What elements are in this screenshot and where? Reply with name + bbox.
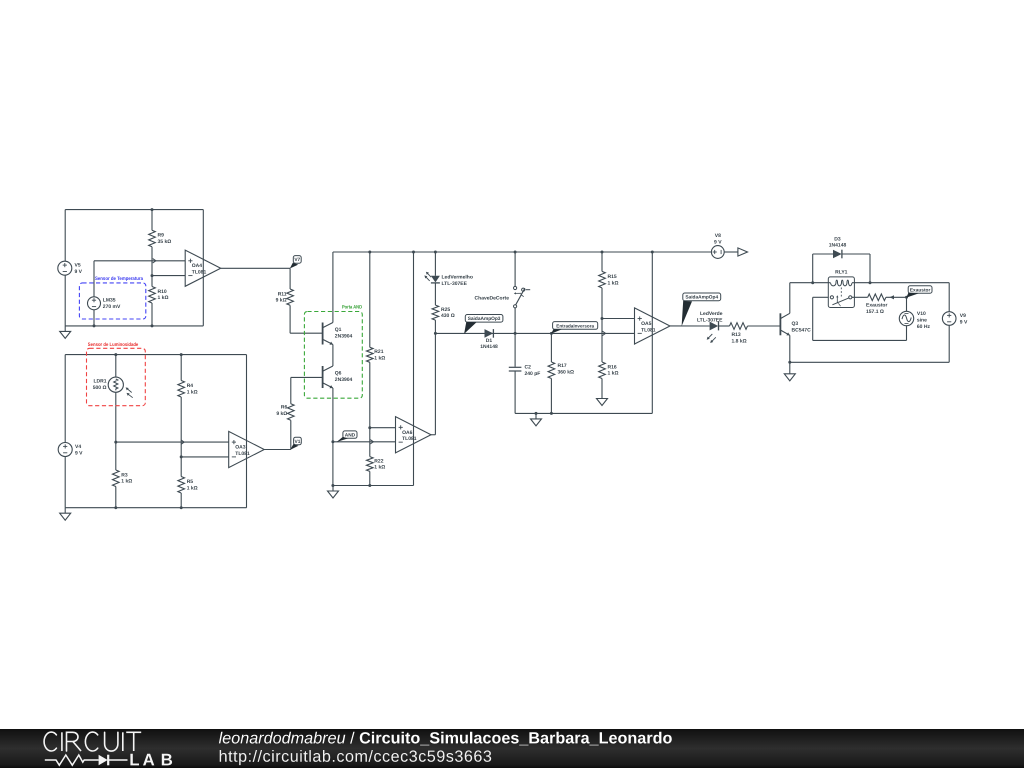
svg-text:Sensor de Luminosidade: Sensor de Luminosidade bbox=[88, 342, 139, 348]
svg-text:SaidaAmpOp4: SaidaAmpOp4 bbox=[685, 295, 718, 301]
svg-text:V8: V8 bbox=[715, 233, 721, 239]
svg-text:R5: R5 bbox=[187, 479, 194, 485]
svg-text:OA6: OA6 bbox=[402, 430, 413, 436]
svg-text:1 kΩ: 1 kΩ bbox=[374, 465, 385, 471]
svg-text:V4: V4 bbox=[75, 444, 81, 450]
svg-text:9 kΩ: 9 kΩ bbox=[276, 411, 287, 417]
svg-text:LTL-307EE: LTL-307EE bbox=[442, 281, 468, 287]
svg-text:TL081: TL081 bbox=[402, 436, 417, 442]
svg-text:LDR1: LDR1 bbox=[93, 379, 106, 385]
svg-text:35 kΩ: 35 kΩ bbox=[158, 239, 172, 245]
svg-text:OA5: OA5 bbox=[641, 321, 652, 327]
svg-text:TL081: TL081 bbox=[235, 451, 250, 457]
svg-text:2N3904: 2N3904 bbox=[335, 333, 353, 339]
svg-text:Exaustor: Exaustor bbox=[910, 287, 931, 293]
svg-text:ChaveDeCorte: ChaveDeCorte bbox=[475, 296, 510, 302]
svg-text:R17: R17 bbox=[558, 363, 567, 369]
svg-text:R10: R10 bbox=[158, 289, 167, 295]
svg-text:1N4148: 1N4148 bbox=[829, 243, 847, 249]
svg-text:270 mV: 270 mV bbox=[103, 304, 121, 310]
svg-text:Q1: Q1 bbox=[335, 327, 342, 333]
svg-text:1 kΩ: 1 kΩ bbox=[608, 371, 619, 377]
svg-text:LedVermelho: LedVermelho bbox=[442, 275, 473, 281]
svg-text:9 V: 9 V bbox=[75, 269, 83, 275]
svg-text:2N3904: 2N3904 bbox=[335, 377, 353, 383]
svg-text:Q3: Q3 bbox=[792, 321, 799, 327]
svg-text:R22: R22 bbox=[374, 458, 383, 464]
svg-text:Porta AND: Porta AND bbox=[342, 305, 362, 311]
svg-text:1 kΩ: 1 kΩ bbox=[608, 280, 619, 286]
svg-text:R3: R3 bbox=[121, 472, 128, 478]
svg-text:1N4148: 1N4148 bbox=[480, 344, 498, 350]
svg-text:157.1 Ω: 157.1 Ω bbox=[866, 309, 884, 315]
svg-text:9 kΩ: 9 kΩ bbox=[276, 298, 287, 304]
svg-text:sine: sine bbox=[917, 318, 927, 324]
svg-text:430 Ω: 430 Ω bbox=[441, 313, 455, 319]
svg-text:R11: R11 bbox=[278, 291, 287, 297]
svg-text:EntradaInversora: EntradaInversora bbox=[556, 323, 594, 328]
svg-text:Sensor de Temperatura: Sensor de Temperatura bbox=[95, 276, 143, 282]
svg-text:1 kΩ: 1 kΩ bbox=[187, 389, 198, 395]
svg-text:LedVerde: LedVerde bbox=[700, 311, 723, 317]
svg-text:Exaustor: Exaustor bbox=[866, 303, 887, 309]
svg-text:OA4: OA4 bbox=[192, 263, 203, 269]
svg-text:360 kΩ: 360 kΩ bbox=[558, 370, 575, 376]
svg-text:D3: D3 bbox=[834, 236, 841, 242]
svg-text:D1: D1 bbox=[486, 338, 493, 344]
svg-text:1 kΩ: 1 kΩ bbox=[121, 479, 132, 485]
svg-text:TL081: TL081 bbox=[641, 327, 656, 333]
svg-text:V1: V1 bbox=[295, 439, 301, 445]
svg-text:R4: R4 bbox=[187, 383, 194, 389]
svg-text:R15: R15 bbox=[608, 274, 617, 280]
svg-text:V9: V9 bbox=[960, 313, 966, 319]
svg-text:R25: R25 bbox=[441, 307, 450, 313]
svg-text:9 V: 9 V bbox=[75, 450, 83, 456]
svg-text:LTL-307EE: LTL-307EE bbox=[697, 318, 723, 324]
svg-text:1.8 kΩ: 1.8 kΩ bbox=[732, 339, 747, 345]
svg-text:OA3: OA3 bbox=[235, 445, 246, 451]
svg-text:V5: V5 bbox=[75, 263, 81, 269]
svg-text:240 pF: 240 pF bbox=[525, 371, 541, 377]
svg-text:R21: R21 bbox=[374, 349, 383, 355]
svg-text:SaidaAmpOp3: SaidaAmpOp3 bbox=[468, 316, 501, 322]
svg-text:AND: AND bbox=[345, 432, 356, 438]
svg-text:Q6: Q6 bbox=[335, 371, 342, 377]
svg-text:LM35: LM35 bbox=[103, 298, 116, 304]
svg-text:BC547C: BC547C bbox=[792, 328, 812, 334]
svg-text:R16: R16 bbox=[608, 364, 617, 370]
svg-text:9 V: 9 V bbox=[714, 240, 722, 246]
svg-text:1 kΩ: 1 kΩ bbox=[374, 356, 385, 362]
svg-text:R9: R9 bbox=[158, 233, 165, 239]
svg-text:C2: C2 bbox=[525, 365, 532, 371]
svg-text:9 V: 9 V bbox=[960, 319, 968, 325]
svg-text:R6: R6 bbox=[281, 405, 288, 411]
svg-text:RLY1: RLY1 bbox=[835, 270, 848, 276]
svg-text:1 kΩ: 1 kΩ bbox=[187, 485, 198, 491]
svg-text:V10: V10 bbox=[917, 311, 926, 317]
svg-text:TL081: TL081 bbox=[192, 270, 207, 276]
svg-text:R13: R13 bbox=[732, 332, 741, 338]
svg-text:V7: V7 bbox=[294, 257, 300, 263]
svg-text:60 Hz: 60 Hz bbox=[917, 324, 931, 330]
svg-text:1 kΩ: 1 kΩ bbox=[158, 295, 169, 301]
svg-text:500 Ω: 500 Ω bbox=[93, 385, 107, 391]
